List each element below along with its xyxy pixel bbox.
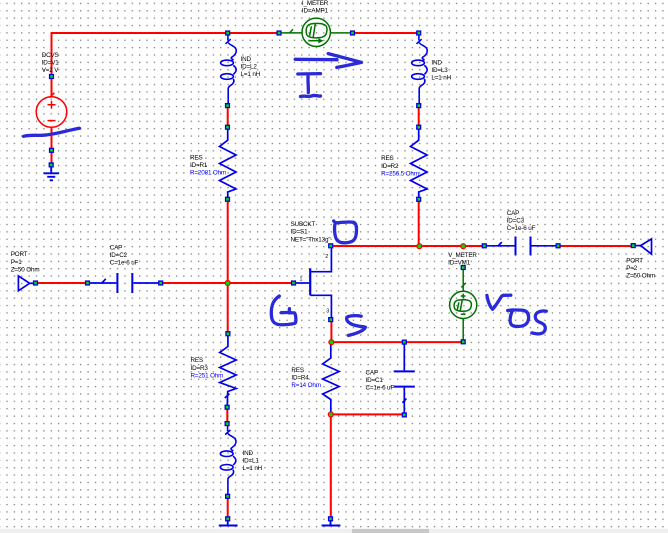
- wire transistor source pin down to source junction: [330, 322, 332, 343]
- pin L1 bottom: [225, 494, 230, 499]
- I_METER needle pivot: [310, 26, 312, 36]
- I_METER dial: [306, 23, 327, 38]
- dc source V1: [36, 93, 67, 127]
- L2 coil body: [228, 43, 236, 61]
- wire top rail right (I_METER right pin to L3 top pin): [353, 32, 419, 34]
- V_METER bottom lead: [462, 319, 464, 341]
- I_METER needle: [313, 24, 315, 38]
- tick on I_METER left lead: [289, 29, 293, 33]
- pin DCVS top: [49, 74, 54, 79]
- svg-text:RES: RES: [191, 357, 204, 364]
- svg-text:ID=S1: ID=S1: [291, 229, 309, 236]
- V_METER dial: [454, 300, 471, 312]
- wire R4 bottom junction to ground pin: [330, 414, 332, 518]
- tick on C2 left lead: [102, 279, 106, 283]
- svg-text:Z=50 Ohm: Z=50 Ohm: [11, 266, 40, 273]
- C1 top plate: [394, 370, 415, 372]
- junction bottom node: [328, 411, 334, 417]
- svg-text:ID=R4: ID=R4: [291, 375, 309, 382]
- port P2: [636, 239, 652, 254]
- port2 lead: [636, 245, 641, 247]
- pin I_METER right: [350, 30, 355, 35]
- pin L3 top: [416, 30, 421, 35]
- pin L3 bottom: [416, 103, 421, 108]
- junction drain node at V_METER: [460, 243, 466, 249]
- ink arrow shaft: [295, 58, 337, 62]
- svg-text:IND: IND: [241, 56, 252, 63]
- L2 lead from top pin: [227, 35, 229, 41]
- svg-text:R=14 Ohm: R=14 Ohm: [291, 382, 320, 389]
- svg-text:ID=R2: ID=R2: [381, 163, 399, 170]
- port1 triangle: [18, 276, 29, 291]
- V_METER needle: [460, 300, 462, 311]
- pin transistor source: [328, 317, 333, 322]
- transistor S1 (SUBCKT FET): [296, 248, 332, 317]
- svg-text:CAP: CAP: [110, 244, 123, 251]
- svg-text:ID=L1: ID=L1: [243, 458, 260, 465]
- C2 right lead: [133, 282, 159, 284]
- svg-text:ID=VM1: ID=VM1: [448, 260, 471, 267]
- wire gate rail: C2 right pin to transistor gate pin: [162, 282, 293, 284]
- wire R2 bottom to drain rail junction: [418, 201, 420, 246]
- resistor R1: [220, 130, 237, 198]
- svg-text:ID=R1: ID=R1: [190, 162, 208, 169]
- svg-text:Z=50 Ohm: Z=50 Ohm: [626, 273, 655, 280]
- svg-text:PORT: PORT: [11, 251, 28, 258]
- tick on C3 left lead: [498, 242, 502, 246]
- C1 bottom lead: [403, 388, 405, 413]
- svg-text:ID=C3: ID=C3: [507, 218, 525, 225]
- pin C1 top: [402, 340, 407, 345]
- wire drain rail: C3 right pin to port2 pin: [559, 245, 633, 247]
- channel bar: [309, 268, 311, 295]
- C1 top lead: [403, 345, 405, 371]
- svg-text:I_METER: I_METER: [302, 0, 329, 7]
- svg-text:IND: IND: [431, 59, 442, 66]
- inductor L2: [221, 35, 237, 104]
- pin C2 right: [158, 280, 163, 285]
- C3 left lead: [486, 245, 515, 247]
- pin C3 left: [482, 243, 487, 248]
- wire gate junction down to R3 top: [227, 283, 229, 333]
- svg-text:CAP: CAP: [366, 369, 379, 376]
- C2 right plate: [131, 273, 133, 293]
- ink letter D (drain): [334, 221, 357, 243]
- ink scribble over DC source: [24, 128, 80, 136]
- svg-text:NET="Thx13g": NET="Thx13g": [291, 236, 331, 243]
- drain arm: [310, 248, 331, 272]
- port1 lead: [30, 282, 34, 284]
- svg-text:1: 1: [300, 277, 303, 283]
- pin port2: [631, 243, 636, 248]
- handwritten ink annotations: [24, 54, 547, 336]
- pin ground left: [225, 516, 230, 521]
- svg-text:SUBCKT: SUBCKT: [291, 221, 316, 228]
- DCVS minus sign: [48, 120, 56, 122]
- svg-text:R=2081 Ohm: R=2081 Ohm: [190, 170, 226, 177]
- pin R2 bottom: [416, 197, 421, 202]
- svg-text:P=1: P=1: [11, 259, 23, 266]
- pin R3 top: [225, 331, 230, 336]
- ink arrow head: [328, 54, 361, 68]
- svg-text:RES: RES: [291, 367, 304, 374]
- I_METER arrow shaft: [308, 40, 319, 42]
- pin ground middle: [328, 516, 333, 521]
- ground (source branch): [322, 521, 341, 526]
- gate lead: [296, 282, 310, 284]
- wire L2 bottom to R1 top: [227, 107, 229, 126]
- svg-text:DCVS: DCVS: [42, 52, 59, 59]
- pin C3 right: [556, 243, 561, 248]
- ammeter AMP1 (I_METER): [281, 18, 352, 46]
- C3 right lead: [532, 245, 557, 247]
- inductor L3: [412, 35, 428, 104]
- junction drain node at R2: [416, 243, 422, 249]
- DCVS source circle: [36, 97, 67, 128]
- svg-text:ID=L2: ID=L2: [241, 64, 258, 71]
- wire gate rail: port1 pin to C2 left pin: [37, 282, 87, 284]
- V_METER plus sign: [461, 294, 466, 299]
- svg-text:P=2: P=2: [626, 265, 638, 272]
- svg-text:ID=R3: ID=R3: [191, 365, 209, 372]
- resistor R4: [323, 344, 340, 414]
- I_METER right lead: [330, 32, 351, 34]
- pin R1 top: [225, 125, 230, 130]
- ink letter G (gate): [271, 296, 296, 325]
- pin R3 bottom: [225, 405, 230, 410]
- C3 right plate: [530, 237, 532, 256]
- svg-text:V=2 V: V=2 V: [42, 67, 60, 74]
- ground of DCVS: [44, 167, 60, 180]
- pin transistor gate: [291, 280, 296, 285]
- pin V_METER top: [461, 265, 466, 270]
- horizontal scrollbar track: [0, 529, 668, 533]
- pin L2 top: [225, 30, 230, 35]
- wire DCVS bottom lead to ground: [51, 128, 53, 166]
- wire top rail left (DCVS corner to I_METER left pin): [52, 33, 280, 97]
- svg-text:ID=L3: ID=L3: [431, 67, 448, 74]
- C2 left lead: [89, 282, 116, 284]
- svg-text:R=251 Ohm: R=251 Ohm: [191, 372, 224, 379]
- source arm: [310, 295, 331, 317]
- pin I_METER left: [276, 30, 281, 35]
- scrollbar thumb: [352, 529, 429, 533]
- V_METER minus sign: [461, 313, 466, 315]
- ink letter S (of VDS): [532, 311, 547, 334]
- tick on C1 bottom lead: [402, 399, 406, 403]
- port P1: [18, 276, 34, 291]
- wire L1 bottom to ground pin: [227, 498, 229, 519]
- V_METER needle pivot: [457, 302, 459, 310]
- junction gate node: [225, 280, 231, 286]
- capacitor C2: [89, 273, 159, 293]
- C2 left plate: [116, 273, 118, 293]
- I_METER arrow head: [319, 39, 323, 43]
- ink letter I: [298, 74, 321, 97]
- pin ground DCVS: [49, 162, 54, 167]
- inductor L1: [220, 426, 236, 495]
- resistor R3: [220, 336, 237, 406]
- I_METER left lead: [281, 32, 303, 34]
- svg-text:C=1e-6 uF: C=1e-6 uF: [110, 260, 139, 267]
- svg-text:CAP: CAP: [507, 210, 520, 217]
- pin R1 bottom: [225, 197, 230, 202]
- svg-text:C=1e-6 uF: C=1e-6 uF: [366, 385, 395, 392]
- V_METER circle: [450, 291, 477, 318]
- tick on L2 top lead: [226, 39, 231, 44]
- pin transistor drain: [328, 243, 333, 248]
- pin L1 top: [225, 421, 230, 426]
- svg-text:R=256.5 Ohm: R=256.5 Ohm: [381, 170, 419, 177]
- ink letter D (of VDS): [508, 310, 529, 327]
- wire R1 bottom to gate junction: [227, 201, 229, 284]
- wire L3 bottom to R2 top: [418, 107, 420, 126]
- pin C2 left: [85, 280, 90, 285]
- C1 bottom plate: [394, 386, 415, 388]
- I_METER circle: [302, 18, 330, 46]
- svg-text:V_METER: V_METER: [448, 252, 477, 259]
- svg-text:ID=C1: ID=C1: [366, 377, 384, 384]
- svg-text:ID=C2: ID=C2: [110, 252, 128, 259]
- svg-text:C=1e-6 uF: C=1e-6 uF: [507, 225, 536, 232]
- svg-text:RES: RES: [381, 155, 394, 162]
- pin C1 bottom: [402, 412, 407, 417]
- ground (left branch): [219, 521, 238, 526]
- V_METER top lead: [462, 270, 464, 292]
- wire drain rail: transistor drain pin to C3 left pin: [331, 245, 483, 247]
- pin L2 bottom: [225, 103, 230, 108]
- C3 left plate: [515, 237, 517, 256]
- wire source rail to V_METER bottom pin: [331, 341, 462, 343]
- svg-text:L=1 nH: L=1 nH: [431, 75, 451, 82]
- capacitor C1: [394, 345, 415, 413]
- svg-text:PORT: PORT: [626, 257, 643, 264]
- svg-text:RES: RES: [190, 154, 203, 161]
- tick on DCVS top lead: [50, 93, 55, 98]
- svg-text:ID=AMP1: ID=AMP1: [302, 7, 329, 14]
- tick on R3 bottom lead: [225, 394, 230, 398]
- resistor R2: [411, 130, 428, 198]
- wire R3 bottom to L1 top: [226, 409, 228, 423]
- svg-text:L=1 nH: L=1 nH: [241, 71, 261, 78]
- pins and junctions: [225, 243, 467, 417]
- pin port1: [33, 280, 38, 285]
- port2 triangle: [641, 239, 652, 254]
- svg-text:ID=V1: ID=V1: [42, 60, 60, 67]
- pin R2 top: [416, 125, 421, 130]
- pin V_METER bottom: [461, 339, 466, 344]
- svg-text:IND: IND: [243, 450, 254, 457]
- DCVS plus sign: [48, 101, 56, 109]
- svg-text:L=1 nH: L=1 nH: [243, 465, 263, 472]
- ink letter S (source): [347, 316, 366, 336]
- voltmeter VM1 (V_METER): [450, 270, 477, 341]
- tick on V_METER top lead: [461, 283, 466, 288]
- svg-text:3: 3: [326, 309, 329, 315]
- junction source node: [328, 339, 334, 345]
- wire bottom rail R4 to C1: [331, 413, 405, 415]
- svg-text:2: 2: [325, 254, 328, 260]
- ink letter V (of VDS): [487, 295, 511, 309]
- capacitor C3: [486, 237, 557, 256]
- pin DCVS bottom: [49, 148, 54, 153]
